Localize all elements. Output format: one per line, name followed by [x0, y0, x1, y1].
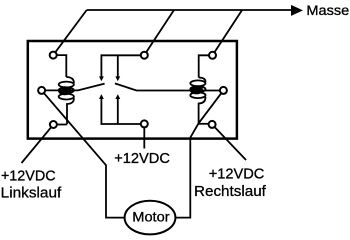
svg-text:Motor: Motor	[132, 210, 170, 225]
svg-text:Masse: Masse	[306, 3, 349, 18]
svg-text:+12VDC: +12VDC	[1, 168, 56, 185]
svg-text:+12VDC: +12VDC	[114, 150, 170, 167]
svg-text:Rechtslauf: Rechtslauf	[194, 183, 267, 200]
svg-text:Linkslauf: Linkslauf	[1, 184, 62, 201]
svg-text:+12VDC: +12VDC	[209, 166, 265, 183]
